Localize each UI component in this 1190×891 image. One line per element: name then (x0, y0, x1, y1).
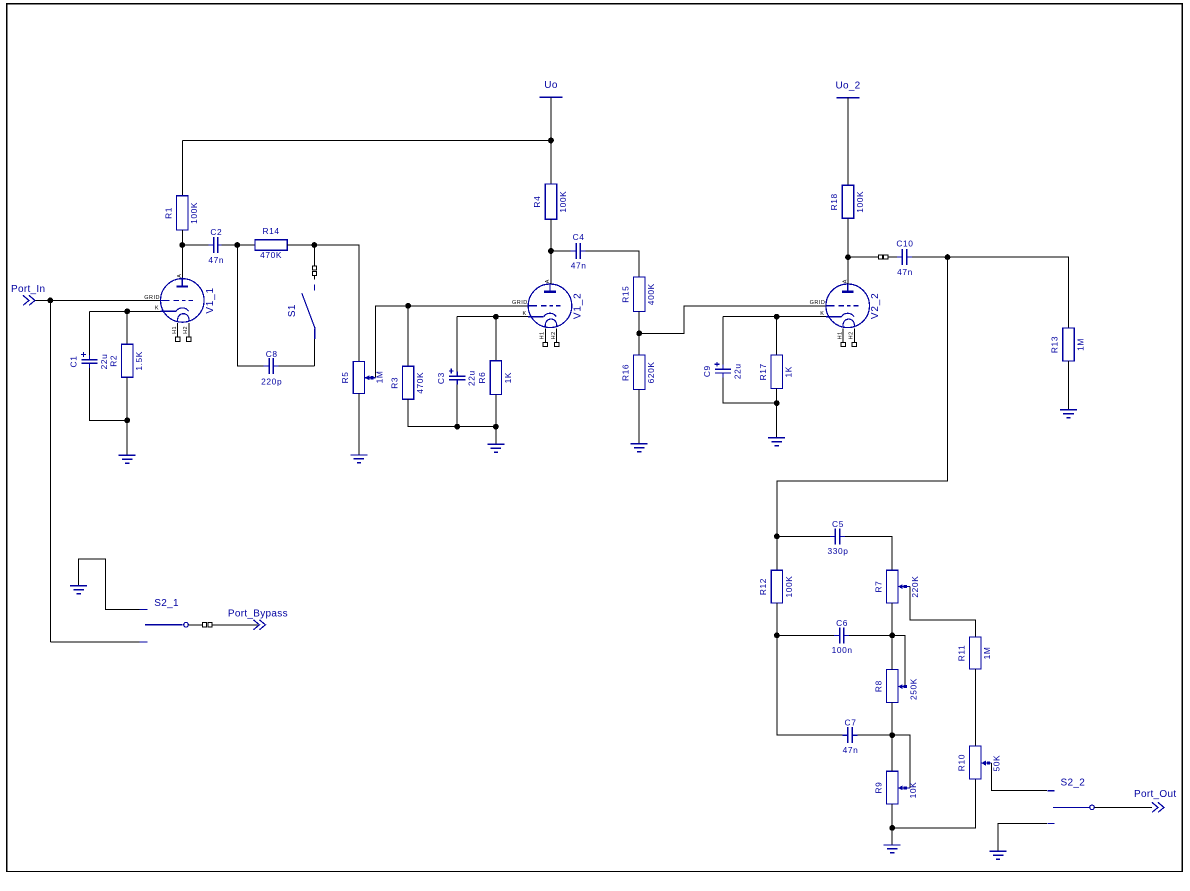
svg-text:1K: 1K (503, 372, 513, 383)
svg-text:A: A (545, 279, 551, 283)
svg-text:R10: R10 (957, 754, 967, 771)
svg-text:R11: R11 (957, 645, 967, 662)
svg-text:330p: 330p (827, 546, 848, 556)
svg-text:1M: 1M (982, 647, 992, 660)
svg-text:R18: R18 (829, 193, 839, 210)
wire S1 top lead (313, 245, 315, 266)
resistor R6 1K (490, 361, 501, 395)
resistor R2 1.5K (122, 344, 133, 377)
wire R7 wiper to R11 (910, 587, 976, 637)
wire V2_2 cathode row (723, 316, 826, 318)
wire R12 bottom lead (776, 603, 778, 636)
svg-text:100K: 100K (855, 191, 865, 213)
svg-text:R8: R8 (873, 680, 883, 692)
wire R14 to R5 top (287, 245, 359, 361)
svg-text:22u: 22u (732, 363, 742, 379)
svg-text:Port_In: Port_In (11, 284, 45, 295)
svg-text:R5: R5 (340, 371, 350, 383)
ground below R2 (126, 420, 128, 455)
wire node to R13 (948, 257, 1069, 328)
svg-text:100K: 100K (558, 191, 568, 213)
wire node to C4 (551, 250, 571, 252)
capacitor C2 47n (208, 244, 213, 246)
wire R5 bottom lead (358, 394, 360, 456)
wire C6 left lead (777, 634, 834, 636)
terminal marker C10 (878, 255, 882, 259)
svg-text:Uo_2: Uo_2 (835, 80, 860, 91)
wire R11 to R10 (974, 669, 976, 746)
wire R8 top lead (891, 635, 893, 669)
triode V1_2 (528, 284, 572, 328)
wire R16 bottom lead (638, 390, 640, 444)
power port Uo (539, 96, 562, 98)
wire R9 bottom lead (891, 804, 893, 828)
wire divider to V2_2 grid (639, 306, 826, 334)
node C10/R13/tonestack junction (945, 254, 951, 260)
svg-text:400K: 400K (646, 283, 656, 305)
capacitor C6 100n (834, 634, 839, 636)
svg-text:100n: 100n (832, 645, 853, 655)
wire S2_2 bottom throw to ground (998, 823, 1047, 851)
svg-text:C2: C2 (210, 227, 222, 237)
svg-text:GRID: GRID (144, 295, 160, 301)
svg-text:R3: R3 (389, 377, 399, 389)
wire C3 top leg (456, 317, 458, 372)
wire Port_In to V1_1 grid (35, 299, 160, 301)
svg-text:C6: C6 (836, 618, 848, 628)
capacitor C8 220p (264, 365, 269, 367)
wire R6 bottom lead (495, 395, 497, 427)
potentiometer R8 250K (887, 670, 898, 703)
node R17/C9 ground junction (774, 400, 780, 406)
node K2/R6 junction (493, 314, 499, 320)
node C3 bottom junction (454, 424, 460, 430)
svg-text:47n: 47n (208, 255, 224, 265)
ground stage2 (495, 427, 497, 445)
terminal marker S1 (312, 266, 316, 270)
wire C8 right lead (279, 365, 315, 367)
svg-text:H2: H2 (183, 326, 189, 334)
svg-text:R2: R2 (108, 355, 118, 367)
svg-text:H2: H2 (849, 331, 855, 339)
svg-text:620K: 620K (646, 361, 656, 383)
svg-text:C7: C7 (845, 718, 857, 728)
capacitor C4 47n (571, 250, 576, 252)
resistor R17 1K (771, 355, 782, 389)
capacitor C9 22u (722, 365, 724, 370)
svg-text:V1_1: V1_1 (205, 287, 216, 314)
svg-text:47n: 47n (843, 745, 859, 755)
wire R5 wiper to V1_2 grid (376, 306, 529, 378)
wire feedback top rail (182, 140, 551, 142)
resistor R14 470K (255, 240, 287, 250)
wire C4 to R15 (586, 251, 640, 277)
resistor R3 470K (402, 366, 413, 399)
wire R3 top lead (407, 306, 409, 367)
svg-text:A: A (177, 274, 183, 278)
wire C1 top leg (89, 311, 91, 355)
wire R6 top lead (495, 317, 497, 361)
wire node to C10 marker (848, 256, 878, 258)
resistor R18 100K (842, 185, 853, 218)
svg-text:1K: 1K (784, 366, 794, 377)
svg-text:R9: R9 (873, 782, 883, 794)
svg-text:C9: C9 (702, 365, 712, 377)
wire R8 wiper tap (892, 635, 905, 686)
svg-text:V2_2: V2_2 (870, 293, 881, 320)
svg-text:100K: 100K (784, 576, 794, 598)
node R2/C1 ground junction (124, 417, 130, 423)
potentiometer R7 220K (887, 570, 898, 603)
svg-text:470K: 470K (415, 372, 425, 394)
resistor R16 620K (634, 355, 645, 390)
capacitor C10 47n (897, 256, 902, 258)
wire bypass bottom throw (50, 641, 139, 643)
wire node to C2 (182, 244, 210, 246)
resistor R15 400K (634, 277, 645, 311)
svg-text:250K: 250K (909, 678, 919, 700)
wire bypass drop (49, 300, 51, 642)
svg-text:C8: C8 (266, 349, 278, 359)
wire C3 bottom leg (456, 385, 458, 427)
resistor R12 100K (771, 570, 782, 603)
node R4/C4 junction (548, 248, 554, 254)
svg-text:R6: R6 (477, 372, 487, 384)
port Port_Bypass (253, 620, 259, 630)
svg-text:R15: R15 (620, 286, 630, 303)
wire feedback drop to R1 (181, 141, 183, 196)
wire V1_1 cathode row (90, 310, 161, 312)
wire S1 bottom lead (313, 339, 315, 366)
wire R18 bottom to V2_2 anode (847, 218, 849, 284)
triode V1_1 (161, 279, 205, 323)
ground below R16 (638, 390, 640, 444)
svg-text:47n: 47n (897, 267, 913, 277)
ground below R17 (776, 403, 778, 438)
wire C5 left lead (777, 535, 830, 537)
svg-text:R4: R4 (532, 196, 542, 208)
wire R9 top lead (891, 735, 893, 771)
svg-text:Port_Out: Port_Out (1134, 789, 1176, 800)
capacitor C7 47n (843, 734, 848, 736)
wire R12 top lead (776, 536, 778, 570)
svg-text:GRID: GRID (810, 300, 826, 306)
svg-text:C10: C10 (896, 239, 913, 249)
power port Uo_2 (836, 97, 859, 99)
svg-text:R7: R7 (873, 581, 883, 593)
svg-text:R17: R17 (758, 363, 768, 380)
resistor R11 1M (970, 637, 981, 669)
node R15/R16 junction (636, 330, 642, 336)
wire C9 bottom leg (723, 378, 777, 403)
svg-text:1.5K: 1.5K (134, 351, 144, 371)
svg-text:470K: 470K (260, 250, 282, 260)
svg-text:10K: 10K (908, 782, 918, 799)
wire R17 top lead (776, 317, 778, 355)
node R18/C10 junction (845, 254, 851, 260)
node R14/S1 junction (312, 242, 318, 248)
node R8/R9 junction (889, 732, 895, 738)
wire to Port_Bypass (212, 624, 258, 626)
ground below S2_2 (997, 823, 999, 851)
node bottom rail junction (889, 825, 895, 831)
svg-text:R14: R14 (263, 226, 280, 236)
potentiometer R9 10K (887, 771, 898, 804)
wire R1 bottom to V1_1 anode (181, 230, 183, 279)
ground below R13 (1068, 361, 1070, 410)
switch S2_2 (1047, 790, 1054, 792)
wire C6 to R7 bottom (849, 634, 892, 636)
wire R8 bottom lead (891, 703, 893, 736)
node K/R2 junction (124, 308, 130, 314)
wire marker to Port_Bypass (188, 624, 202, 626)
wire S2_2 to Port_Out (1094, 806, 1152, 808)
node R6 bottom junction (493, 424, 499, 430)
node K3/R17 junction (774, 314, 780, 320)
node R3 top junction (405, 303, 411, 309)
port Port_In (23, 295, 29, 305)
svg-text:S2_1: S2_1 (154, 598, 179, 609)
wire left rail to C7 (777, 635, 843, 735)
svg-text:H1: H1 (837, 331, 843, 339)
wire R4 bottom to V1_2 anode (550, 219, 552, 284)
terminal marker S2_1 (203, 623, 207, 627)
capacitor C1 22u (89, 355, 91, 360)
wire R17 bottom lead (776, 389, 778, 404)
svg-text:220K: 220K (910, 576, 920, 598)
svg-text:R1: R1 (164, 207, 174, 219)
capacitor C5 330p (830, 535, 835, 537)
svg-text:C4: C4 (573, 232, 585, 242)
svg-text:Uo: Uo (544, 80, 558, 91)
ground below R9 (891, 828, 893, 845)
wire C9 top leg (722, 317, 724, 365)
node R1/C2/anode junction (179, 242, 185, 248)
switch S1 (313, 285, 315, 291)
wire bottom rail to R10 (892, 779, 975, 828)
wire C7 to R8 bottom (858, 734, 893, 736)
wire ground hook to top throw (79, 559, 140, 610)
resistor R13 1M (1063, 328, 1074, 361)
svg-text:Port_Bypass: Port_Bypass (228, 609, 288, 620)
svg-text:H2: H2 (551, 331, 557, 339)
svg-text:R12: R12 (758, 578, 768, 595)
node Port_In junction (47, 298, 53, 304)
node C6/left rail junction (774, 633, 780, 639)
potentiometer R10 50K (970, 746, 981, 779)
wire R15 to R16 (638, 311, 640, 355)
wire S1 stub (313, 276, 315, 280)
triode V2_2 (826, 284, 870, 328)
svg-text:GRID: GRID (512, 300, 528, 306)
node C2/R14/C8 junction (234, 242, 240, 248)
wire C2 to S1 node (221, 244, 255, 246)
svg-text:1M: 1M (1075, 338, 1085, 351)
wire Uo_2 stem (847, 98, 849, 186)
wire V1_2 cathode row (457, 316, 528, 318)
svg-text:50K: 50K (992, 755, 1002, 772)
potentiometer R5 1M (353, 361, 364, 393)
node C5/R12 junction (774, 534, 780, 540)
port Port_Out (1152, 802, 1158, 812)
ground at S2_1 (78, 570, 80, 586)
svg-text:R16: R16 (620, 364, 630, 381)
wire marker to C10 (888, 256, 897, 258)
wire C8 left leg (237, 245, 263, 366)
node R7/R8 junction (889, 633, 895, 639)
svg-text:47n: 47n (571, 261, 587, 271)
wire C5 to R7 top (845, 536, 892, 570)
svg-text:R13: R13 (1050, 336, 1060, 353)
svg-text:H1: H1 (172, 326, 178, 334)
svg-text:22u: 22u (99, 354, 109, 370)
resistor R4 100K (545, 184, 556, 219)
resistor R1 100K (177, 196, 188, 230)
wire R2 bottom lead (126, 377, 128, 420)
wire R9 wiper tap (892, 735, 910, 788)
svg-text:V1_2: V1_2 (573, 293, 584, 320)
wire R3 bottom to rail (408, 399, 496, 426)
svg-text:S2_2: S2_2 (1061, 778, 1086, 789)
node Uo/R4/feedback junction (548, 138, 554, 144)
wire Uo stem (550, 97, 552, 184)
svg-text:220p: 220p (261, 377, 282, 387)
wire C1 bottom leg (90, 368, 128, 420)
svg-text:S1: S1 (287, 304, 298, 317)
wire R2 top lead (126, 311, 128, 344)
svg-text:22u: 22u (467, 370, 477, 386)
ground below R5 (358, 394, 360, 456)
capacitor C3 22u (456, 372, 458, 377)
svg-text:100K: 100K (189, 202, 199, 224)
svg-text:C5: C5 (832, 519, 844, 529)
svg-text:H1: H1 (540, 331, 546, 339)
wire R7 bottom lead (891, 603, 893, 636)
svg-text:C3: C3 (436, 372, 446, 384)
wire to tone stack (777, 257, 948, 536)
wire C10 to node (912, 256, 948, 258)
wire R13 bottom lead (1068, 361, 1070, 410)
svg-text:C1: C1 (69, 356, 79, 368)
switch S2_1 (140, 609, 148, 611)
wire R10 wiper to S2_2 (992, 763, 1048, 791)
